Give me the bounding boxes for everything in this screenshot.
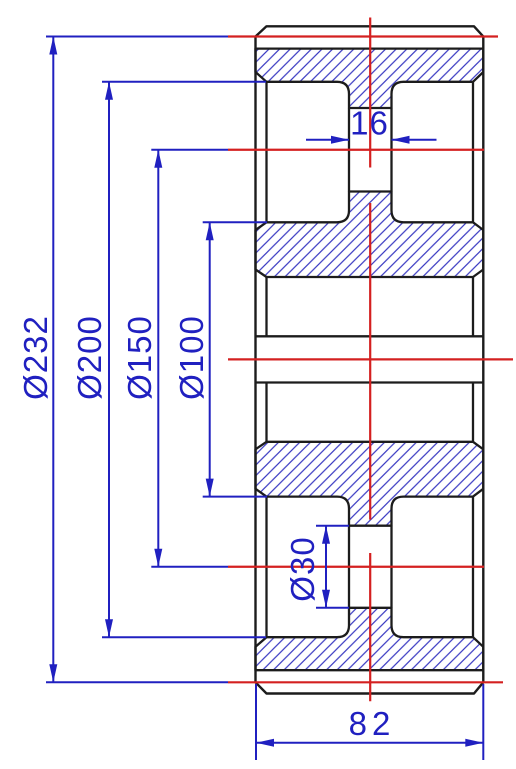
gear rim bottom section (hatched) with web stub xyxy=(256,608,484,670)
arrows dia200 xyxy=(105,82,113,100)
dia30 extension tick top xyxy=(316,525,349,527)
arrows dia100 xyxy=(206,222,214,240)
inner contour verticals right xyxy=(472,82,474,637)
pitch centerline bottom (red) xyxy=(228,681,503,683)
arrows 82 xyxy=(256,739,274,747)
arrows dia232 xyxy=(49,37,57,55)
vertical centerline segment 1 (red) xyxy=(369,18,371,168)
web right edge through top hole xyxy=(390,108,392,192)
dimension line dia150 xyxy=(157,150,159,567)
extension line dia200 top xyxy=(102,81,266,83)
dimension line dia200 xyxy=(108,82,110,637)
gear rim top section (hatched) with web stub xyxy=(256,49,484,108)
dimension 16 left tail xyxy=(306,139,349,141)
extension line dia232 top xyxy=(46,36,228,38)
dimension 16 right tail xyxy=(392,139,437,141)
web left edge through top hole xyxy=(348,108,350,192)
extension line 82 right xyxy=(482,684,484,760)
extension line dia100 top xyxy=(203,221,267,223)
dimension line 82 xyxy=(256,742,483,744)
outer silhouette with chamfered corners xyxy=(256,26,484,693)
hub lower section (hatched) with web stub xyxy=(256,442,484,526)
dia30 extension tick bottom xyxy=(316,607,349,609)
bore upper wall line xyxy=(256,335,484,337)
pitch centerline top (red) xyxy=(228,35,498,37)
main axis centerline (red) xyxy=(228,358,513,360)
dimension line dia232 xyxy=(52,37,54,683)
bore lower wall line xyxy=(256,381,484,383)
vertical centerline segment 3 (red) xyxy=(369,553,371,701)
vertical centerline segment 2 (red) xyxy=(369,203,371,520)
svg-text:82: 82 xyxy=(349,705,396,742)
arrows 16 xyxy=(331,136,349,144)
arrows dia150 xyxy=(154,150,162,168)
hub upper section (hatched) with web stub xyxy=(256,192,484,278)
svg-text:Ø150: Ø150 xyxy=(121,315,158,400)
svg-text:16: 16 xyxy=(350,105,389,142)
extension line dia150 top xyxy=(151,149,228,151)
extension line dia200 bottom xyxy=(102,636,266,638)
web right edge through bottom hole xyxy=(390,526,392,608)
web left edge through bottom hole xyxy=(348,526,350,608)
svg-text:Ø232: Ø232 xyxy=(17,315,54,400)
extension line dia232 bottom xyxy=(46,681,228,683)
svg-text:Ø30: Ø30 xyxy=(284,536,321,601)
extension line 82 left xyxy=(255,684,257,760)
dimension line dia30 xyxy=(325,526,327,608)
inner contour verticals left xyxy=(265,82,267,637)
extension line dia100 bottom xyxy=(203,496,267,498)
svg-text:Ø100: Ø100 xyxy=(173,315,210,400)
bottom hole centerline (red) xyxy=(228,566,484,568)
extension line dia150 bottom xyxy=(151,566,228,568)
dimension line dia100 xyxy=(209,222,211,496)
arrows dia30 xyxy=(322,526,330,544)
svg-text:Ø200: Ø200 xyxy=(71,315,108,400)
top hole centerline (red) xyxy=(228,149,484,151)
